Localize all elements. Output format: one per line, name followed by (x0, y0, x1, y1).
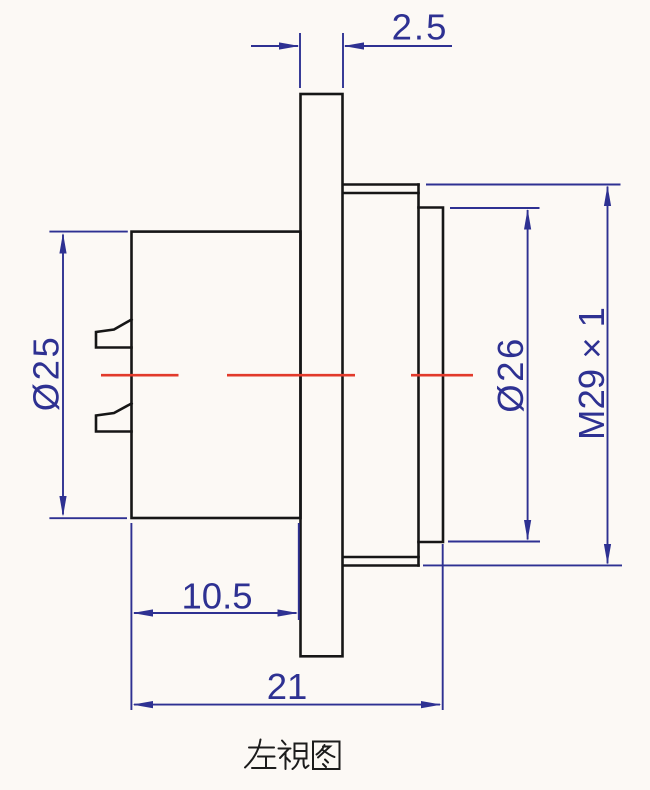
dim 10.5 extension left (130, 523, 132, 710)
arrow M29 down (604, 544, 611, 565)
upper tab (96, 320, 132, 348)
arrow Ø25 down (59, 496, 66, 517)
dim Ø25 extension top (49, 231, 127, 233)
svg-text:2.5: 2.5 (392, 7, 449, 48)
dim Ø26 line (527, 210, 529, 540)
arrow M29 up (604, 186, 611, 207)
arrow 10.5 right (278, 609, 299, 616)
thread right edge (417, 185, 420, 566)
centerline (101, 374, 473, 377)
arrow 2.5 right (points left) (344, 42, 365, 49)
thread outer top line (343, 183, 419, 186)
dim 2.5 line right (345, 45, 452, 47)
thread outer bottom line (343, 564, 419, 567)
glyph 左 (245, 740, 276, 769)
glyph 视 (279, 741, 309, 770)
arrow 10.5 left (133, 609, 154, 616)
svg-text:Ø26: Ø26 (490, 336, 531, 413)
arrow 2.5 left (points right) (279, 42, 300, 49)
arrow 21 right (421, 701, 442, 708)
svg-text:Ø25: Ø25 (26, 335, 67, 412)
thread inner bottom line (343, 556, 419, 559)
arrow Ø26 up (524, 209, 531, 230)
right cylinder Ø26 (419, 208, 444, 543)
svg-text:10.5: 10.5 (181, 576, 252, 617)
dim Ø25 line (62, 235, 64, 515)
dim M29 extension bottom (423, 564, 622, 566)
dim 21 extension right (442, 544, 444, 710)
body rect (left cylinder Ø25) (132, 232, 301, 518)
dim 2.5 extension line left (299, 33, 301, 88)
dim Ø25 extension bottom (49, 517, 127, 519)
lower tab (96, 404, 132, 432)
dim 2.5 line left (251, 45, 298, 47)
centerline segment 3 (411, 374, 473, 377)
centerline segment 2 (227, 374, 355, 377)
dim 2.5 extension line right (342, 33, 344, 88)
dim Ø26 extension top (450, 207, 540, 209)
caption 左视图 (hand-drawn glyphs) (245, 740, 340, 770)
dim 21 line (134, 704, 440, 706)
dim M29 extension top (426, 184, 621, 186)
dim 10.5 line (134, 612, 297, 614)
dim 10.5 extension right (298, 523, 300, 620)
arrow Ø26 down (524, 520, 531, 541)
thread inner top line (343, 192, 419, 195)
flange rect (301, 94, 343, 656)
svg-text:M29 × 1: M29 × 1 (571, 307, 612, 440)
glyph 图 (313, 742, 340, 770)
centerline segment 1 (101, 374, 179, 377)
svg-text:21: 21 (267, 666, 308, 707)
arrow 21 left (133, 701, 154, 708)
dim Ø26 extension bottom (448, 541, 540, 543)
dim M29 line (607, 187, 609, 564)
arrow Ø25 up (59, 233, 66, 254)
